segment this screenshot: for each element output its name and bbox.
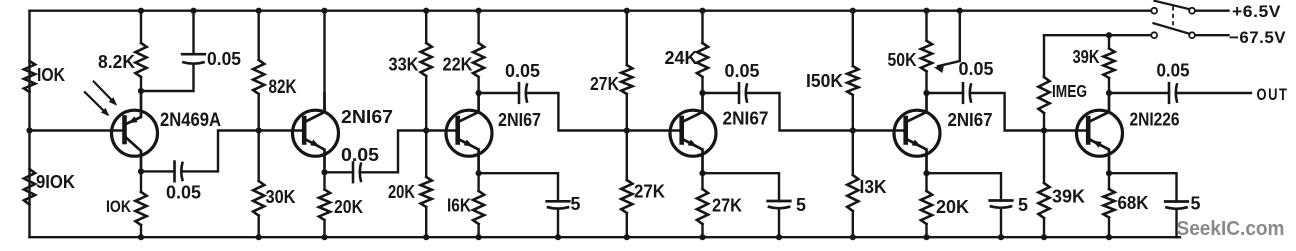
label 2N167 bbox=[498, 109, 541, 130]
wire left vertical branch bbox=[28, 11, 30, 238]
svg-text:0.05: 0.05 bbox=[207, 49, 241, 69]
transistor circle Q4 bbox=[670, 110, 716, 156]
svg-text:20K: 20K bbox=[334, 197, 363, 217]
svg-text:I3K: I3K bbox=[860, 177, 887, 197]
label 10K bbox=[37, 65, 65, 85]
wire coupling to Q5 base bbox=[746, 93, 904, 131]
resistor 20K (Q5 emitter) bbox=[921, 173, 932, 237]
wire 8.2K to emitter node bbox=[140, 77, 142, 91]
label 0.05 bbox=[505, 61, 540, 81]
svg-text:0.05: 0.05 bbox=[1157, 60, 1190, 81]
switch S1b throw bbox=[1189, 32, 1195, 38]
wire bottom ground rail bbox=[30, 236, 1181, 238]
transistor circle Q6 bbox=[1077, 110, 1123, 156]
transistor collector lead Q6 bbox=[1090, 93, 1109, 122]
transistor emitter arrow Q5 bbox=[912, 140, 922, 147]
capacitor 5 (Q5 bypass) bbox=[990, 201, 1013, 208]
junction 27K-ground bbox=[699, 234, 705, 240]
transistor base bar Q3 bbox=[455, 118, 460, 143]
capacitor 5 (Q3 bypass) bbox=[547, 201, 570, 208]
resistor 27K (divider top) bbox=[621, 11, 632, 131]
label 2N167 bbox=[948, 109, 993, 130]
junction 27K-ground bbox=[624, 234, 630, 240]
wire coupling to Q4 base bbox=[526, 93, 680, 131]
junction divider 1MEG/39K bbox=[1041, 127, 1047, 133]
svg-text:0.05: 0.05 bbox=[725, 61, 760, 81]
label 150K bbox=[806, 71, 843, 91]
label 0.05 bbox=[1157, 60, 1190, 81]
junction 150K-rail bbox=[850, 8, 856, 14]
junction 33K-rail bbox=[423, 8, 429, 14]
capacitor 0.05 (coupling 4-5) bbox=[739, 83, 747, 103]
wire bypass cap to ground bbox=[557, 209, 559, 238]
resistor 33K (divider top) bbox=[421, 11, 432, 131]
svg-text:5: 5 bbox=[1018, 195, 1028, 215]
wire coupling to Q6 base bbox=[970, 93, 1086, 131]
junction Q2 collector-rail bbox=[321, 8, 327, 14]
junction Q4 collector node bbox=[699, 90, 705, 96]
label 0.05 bbox=[207, 49, 241, 69]
transistor Q1 base bar bbox=[122, 118, 127, 143]
junction 8.2K-rail bbox=[138, 8, 144, 14]
transistor emitter lead (NPN) Q2 bbox=[306, 140, 325, 173]
wire bypass cap to ground bbox=[1175, 209, 1177, 237]
capacitor 5 (Q4 bypass) bbox=[768, 201, 791, 208]
label 5 bbox=[1018, 195, 1028, 215]
capacitor 0.05 (Q1 emitter bypass) bbox=[182, 54, 205, 64]
junction cap-ground bbox=[555, 234, 561, 240]
label 2N167 bbox=[723, 108, 769, 129]
svg-text:SeekIC.com: SeekIC.com bbox=[1177, 217, 1285, 240]
svg-text:50K: 50K bbox=[888, 50, 917, 70]
resistor 82K (divider top) bbox=[253, 11, 264, 131]
resistor 39K (Q6 bias lower) bbox=[1038, 131, 1049, 238]
junction emitter node bbox=[138, 88, 144, 94]
junction 39K-ground bbox=[1041, 234, 1047, 240]
label 5 bbox=[1191, 194, 1201, 214]
transistor circle Q3 bbox=[446, 110, 492, 156]
wire +6.5V bbox=[1195, 9, 1228, 11]
label 10K bbox=[106, 197, 132, 216]
wire to coupling cap 3-4 bbox=[479, 92, 519, 94]
wire cap 0.05 bottom lead bbox=[141, 64, 194, 91]
label 910K bbox=[36, 172, 75, 192]
svg-text:22K: 22K bbox=[443, 55, 473, 75]
wire output bbox=[1176, 92, 1251, 94]
transistor circle Q5 bbox=[894, 110, 940, 156]
capacitor 0.05 (output) bbox=[1169, 83, 1177, 103]
junction Q4 emitter node bbox=[699, 170, 705, 176]
junction Q1 collector node bbox=[138, 168, 144, 174]
junction 27K-rail bbox=[624, 8, 630, 14]
transistor collector lead Q5 bbox=[907, 93, 926, 122]
junction cap-rail bbox=[190, 8, 196, 14]
transistor collector lead Q4 bbox=[683, 93, 702, 122]
label 2N1226 bbox=[1130, 109, 1180, 130]
svg-text:33K: 33K bbox=[389, 55, 419, 75]
svg-text:I6K: I6K bbox=[447, 196, 471, 216]
transistor Q1 collector lead (bottom) bbox=[126, 138, 141, 172]
potentiometer 50K wiper bbox=[934, 11, 960, 73]
resistor 150K (divider top) bbox=[847, 11, 858, 131]
transistor emitter arrow Q6 bbox=[1092, 141, 1102, 148]
label 82K bbox=[269, 76, 297, 98]
svg-text:2NI226: 2NI226 bbox=[1130, 109, 1180, 130]
junction Q6 collector node bbox=[1106, 90, 1112, 96]
junction base-left bbox=[26, 127, 32, 133]
capacitor 0.05 (coupling 2-3) bbox=[353, 163, 361, 183]
label 5 bbox=[796, 195, 806, 215]
wire coupling to Q3 base bbox=[360, 131, 457, 173]
label 0.05 bbox=[959, 59, 994, 79]
label 27K bbox=[590, 74, 619, 94]
label 50K bbox=[888, 50, 917, 70]
transistor base bar Q5 bbox=[903, 118, 908, 143]
capacitor 0.05 (coupling 5-6) bbox=[963, 83, 971, 103]
wire Q1 base bbox=[30, 129, 123, 131]
resistor 910K bbox=[24, 169, 35, 205]
svg-text:27K: 27K bbox=[634, 182, 665, 202]
switch S1a pole bbox=[1151, 8, 1157, 14]
switch S1a lever bbox=[1155, 1, 1190, 9]
junction Q3 collector node bbox=[476, 90, 482, 96]
label 20K bbox=[936, 197, 969, 217]
resistor 10K (Q1 collector load) bbox=[135, 171, 146, 237]
svg-text:I50K: I50K bbox=[806, 71, 843, 91]
transistor Q1 emitter lead (top) bbox=[126, 91, 141, 124]
junction 20K-ground bbox=[923, 234, 929, 240]
label 27K bbox=[634, 182, 665, 202]
wire to coupling cap bbox=[141, 170, 175, 172]
capacitor 0.05 (coupling 1-2) bbox=[175, 162, 183, 182]
wire bypass cap to ground bbox=[1000, 208, 1002, 237]
junction 68K-ground bbox=[1106, 234, 1112, 240]
svg-text:−67.5V: −67.5V bbox=[1229, 28, 1286, 47]
switch S1a throw bbox=[1189, 8, 1195, 14]
resistor 27K (Q4 emitter) bbox=[697, 173, 708, 237]
label 20K bbox=[388, 182, 415, 202]
junction divider 150K/13K bbox=[850, 127, 856, 133]
wire to coupling cap 4-5 bbox=[703, 92, 740, 94]
svg-text:0.05: 0.05 bbox=[341, 145, 379, 165]
svg-text:IOK: IOK bbox=[106, 197, 132, 216]
svg-text:0.05: 0.05 bbox=[959, 59, 994, 79]
junction Q6 emitter node bbox=[1106, 170, 1112, 176]
label 2N167 bbox=[341, 106, 393, 127]
label 0.05 bbox=[166, 183, 201, 203]
transistor emitter arrow Q4 bbox=[688, 140, 698, 147]
capacitor 0.05 (coupling 3-4) bbox=[519, 83, 527, 103]
junction divider 33K/20K bbox=[423, 127, 429, 133]
svg-text:39K: 39K bbox=[1073, 47, 1100, 67]
label 20K bbox=[334, 197, 363, 217]
junction wiper-rail bbox=[957, 8, 963, 14]
junction Q3 emitter node bbox=[476, 170, 482, 176]
label 39K bbox=[1073, 47, 1100, 67]
label -67.5V bbox=[1229, 28, 1286, 47]
junction 20K-ground bbox=[321, 234, 327, 240]
transistor base bar Q4 bbox=[679, 118, 684, 143]
watermark SeekIC.com bbox=[1177, 217, 1285, 240]
junction 24K-rail bbox=[699, 8, 705, 14]
transistor emitter lead (NPN) Q5 bbox=[907, 140, 926, 174]
photo arrow 2 bbox=[85, 92, 109, 116]
svg-text:8.2K: 8.2K bbox=[98, 52, 135, 72]
junction 39K-feed bbox=[1106, 32, 1112, 38]
junction cap-ground bbox=[776, 234, 782, 240]
svg-text:24K: 24K bbox=[665, 48, 698, 68]
wire to output cap bbox=[1109, 92, 1169, 94]
transistor emitter lead (NPN) Q3 bbox=[459, 140, 478, 174]
wire Q5 emitter to bypass cap bbox=[927, 173, 1002, 200]
junction 22K-rail bbox=[476, 8, 482, 14]
resistor 20K (Q2 emitter) bbox=[319, 172, 330, 237]
resistor 1MEG (Q6 bias upper) bbox=[1038, 35, 1049, 130]
photo arrow 1 bbox=[94, 82, 117, 106]
transistor collector lead Q2 bbox=[306, 93, 325, 122]
junction 20K-ground bbox=[423, 234, 429, 240]
wire top supply rail bbox=[30, 9, 1152, 11]
resistor 20K (divider bottom) bbox=[421, 131, 432, 238]
junction divider 82K/30K bbox=[256, 127, 262, 133]
label 22K bbox=[443, 55, 473, 75]
transistor Q1 2N469A circle bbox=[112, 110, 158, 156]
svg-text:27K: 27K bbox=[590, 74, 619, 94]
label 1MEG bbox=[1052, 81, 1087, 101]
resistor 16K (Q3 emitter) bbox=[473, 173, 484, 237]
potentiometer 50K (Q5 collector) bbox=[921, 11, 932, 93]
junction Q5 emitter node bbox=[923, 170, 929, 176]
svg-text:2N469A: 2N469A bbox=[160, 109, 221, 131]
label 5 bbox=[571, 194, 581, 214]
wire Q3 emitter to bypass cap bbox=[479, 173, 558, 201]
svg-text:5: 5 bbox=[571, 194, 581, 214]
label 0.05 bbox=[725, 61, 760, 81]
junction 82K-rail bbox=[256, 8, 262, 14]
wire bypass cap to ground bbox=[778, 208, 780, 237]
svg-text:27K: 27K bbox=[712, 196, 742, 216]
transistor emitter lead (NPN) Q4 bbox=[683, 140, 702, 174]
junction Q2 emitter node bbox=[321, 169, 327, 175]
junction cap-ground bbox=[998, 234, 1004, 240]
svg-text:2NI67: 2NI67 bbox=[498, 109, 541, 130]
svg-text:39K: 39K bbox=[1052, 187, 1085, 207]
junction 13K-ground bbox=[850, 234, 856, 240]
svg-text:OUT: OUT bbox=[1257, 86, 1289, 104]
resistor 10K (input top) bbox=[24, 61, 35, 92]
wire cap 0.05 top lead bbox=[192, 11, 194, 55]
wire to coupling cap 2-3 bbox=[325, 171, 354, 173]
label 33K bbox=[389, 55, 419, 75]
resistor 24K (Q4 collector load) bbox=[697, 11, 708, 93]
svg-text:82K: 82K bbox=[269, 76, 297, 98]
transistor circle Q2 bbox=[293, 110, 339, 156]
resistor 30K (divider bottom) bbox=[253, 131, 264, 238]
wire Q4 emitter to bypass cap bbox=[703, 173, 780, 201]
label 39K bbox=[1052, 187, 1085, 207]
label 27K bbox=[712, 196, 742, 216]
resistor 68K (Q6 emitter) bbox=[1103, 173, 1114, 237]
transistor emitter arrow Q3 bbox=[464, 140, 474, 147]
junction Q5 collector node bbox=[923, 90, 929, 96]
svg-text:2NI67: 2NI67 bbox=[948, 109, 993, 130]
svg-text:5: 5 bbox=[796, 195, 806, 215]
svg-text:5: 5 bbox=[1191, 194, 1201, 214]
label 8.2K bbox=[98, 52, 135, 72]
resistor 13K (divider bottom) bbox=[847, 131, 858, 238]
svg-text:9IOK: 9IOK bbox=[36, 172, 75, 192]
capacitor 5 (Q6 bypass) bbox=[1165, 202, 1188, 209]
transistor emitter lead (PNP) Q6 bbox=[1090, 140, 1109, 174]
transistor base bar Q6 bbox=[1086, 118, 1091, 143]
svg-text:IMEG: IMEG bbox=[1052, 81, 1087, 101]
svg-text:+6.5V: +6.5V bbox=[1232, 2, 1281, 21]
junction 10K-ground bbox=[138, 234, 144, 240]
label 13K bbox=[860, 177, 887, 197]
junction 50K-rail bbox=[923, 8, 929, 14]
svg-text:0.05: 0.05 bbox=[505, 61, 540, 81]
svg-text:0.05: 0.05 bbox=[166, 183, 201, 203]
svg-text:2NI67: 2NI67 bbox=[341, 106, 393, 127]
svg-text:68K: 68K bbox=[1118, 193, 1149, 213]
label OUT bbox=[1257, 86, 1289, 104]
label 2N469A bbox=[160, 109, 221, 131]
label 30K bbox=[266, 187, 296, 207]
resistor 8.2K bbox=[135, 43, 146, 77]
label 16K bbox=[447, 196, 471, 216]
svg-text:2NI67: 2NI67 bbox=[723, 108, 769, 129]
transistor base bar Q2 bbox=[302, 118, 307, 143]
wire Q6 emitter to bypass cap bbox=[1109, 173, 1177, 201]
svg-text:20K: 20K bbox=[936, 197, 969, 217]
wire Q2 collector to rail bbox=[323, 11, 325, 112]
junction 30K-ground bbox=[256, 234, 262, 240]
svg-text:IOK: IOK bbox=[37, 65, 65, 85]
label 0.05 bbox=[341, 145, 379, 165]
label +6.5V bbox=[1232, 2, 1281, 21]
wire -67.5V feed bbox=[1044, 34, 1152, 36]
switch gang link (dashed) bbox=[1172, 7, 1174, 30]
label 24K bbox=[665, 48, 698, 68]
resistor 27K (divider bottom) bbox=[621, 131, 632, 238]
transistor collector lead Q3 bbox=[459, 93, 478, 122]
wire 8.2K top lead bbox=[140, 11, 142, 43]
junction 16K-ground bbox=[476, 234, 482, 240]
resistor 39K (Q6 collector load) bbox=[1103, 35, 1114, 93]
transistor emitter arrow Q2 bbox=[310, 140, 320, 147]
transistor Q1 emitter arrow (PNP) bbox=[128, 116, 138, 123]
label 68K bbox=[1118, 193, 1149, 213]
junction divider 27K/27K bbox=[624, 127, 630, 133]
svg-text:20K: 20K bbox=[388, 182, 415, 202]
switch S1b lever bbox=[1154, 23, 1190, 34]
switch S1b pole bbox=[1151, 32, 1157, 38]
wire -67.5V bbox=[1195, 34, 1228, 36]
wire to coupling cap 5-6 bbox=[927, 92, 964, 94]
wire coupling to Q2 base bbox=[182, 131, 303, 172]
svg-text:30K: 30K bbox=[266, 187, 296, 207]
resistor 22K (Q3 collector load) bbox=[473, 11, 484, 93]
